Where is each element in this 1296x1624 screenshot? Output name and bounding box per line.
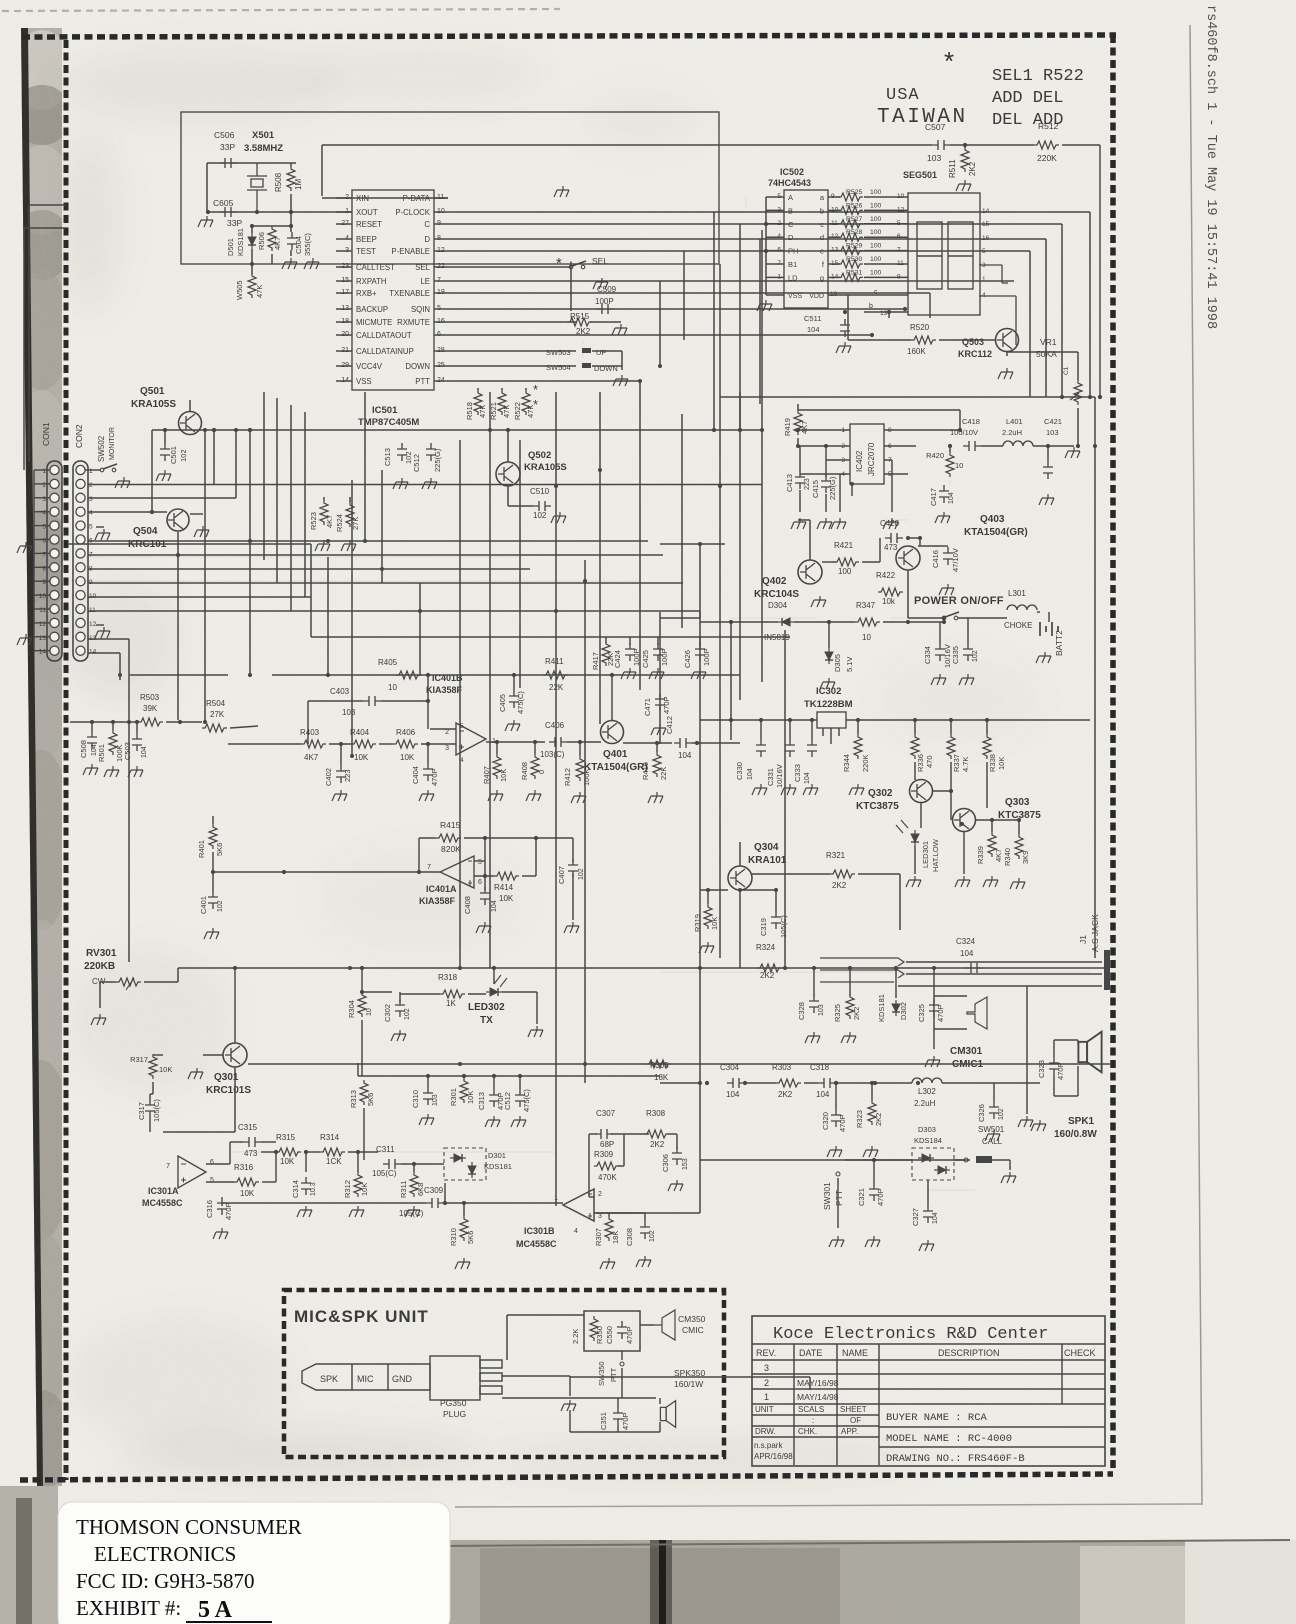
svg-text:FCC ID: G9H3-5870: FCC ID: G9H3-5870 [76,1569,255,1593]
svg-text:THOMSON CONSUMER: THOMSON CONSUMER [76,1515,302,1539]
svg-text:ELECTRONICS: ELECTRONICS [94,1542,236,1566]
svg-text:5 A: 5 A [198,1597,233,1623]
svg-text:EXHIBIT #:: EXHIBIT #: [76,1596,181,1620]
